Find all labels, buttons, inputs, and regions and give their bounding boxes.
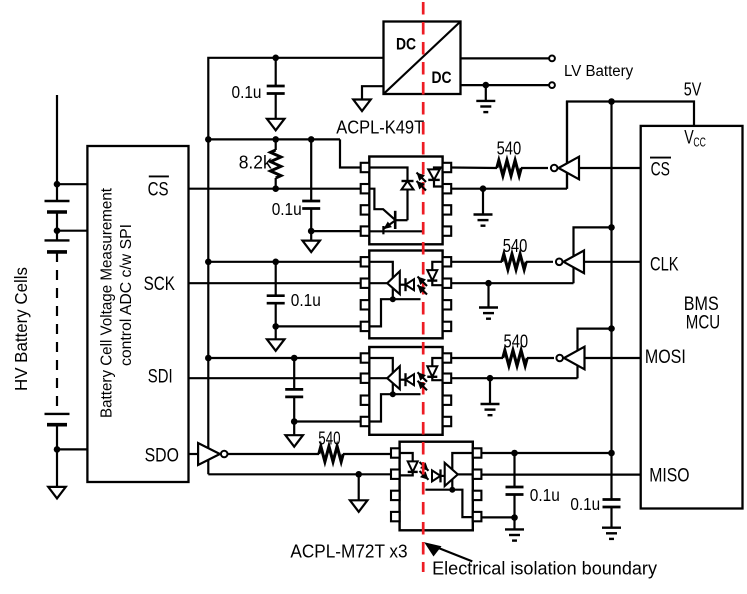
battery cell B3 <box>45 414 70 425</box>
wire <box>293 358 295 389</box>
node <box>485 280 492 287</box>
wire <box>451 377 577 379</box>
pin <box>361 163 370 172</box>
label R5 540 <box>318 427 340 448</box>
wire <box>56 212 58 240</box>
svg-text:control ADC c/w SPI: control ADC c/w SPI <box>118 224 135 366</box>
wire <box>482 189 484 214</box>
pin <box>443 300 452 309</box>
svg-text:0.1u: 0.1u <box>232 82 262 102</box>
pin <box>443 353 452 362</box>
wire <box>362 86 384 99</box>
svg-text:HV Battery Cells: HV Battery Cells <box>11 267 31 391</box>
ground (HV) arrow <box>353 100 371 112</box>
pin <box>473 470 482 479</box>
pin <box>361 353 370 362</box>
pin <box>443 374 452 383</box>
label C5 0.1u <box>530 485 560 505</box>
wire U2 gnd shield <box>369 230 422 232</box>
optocoupler U3 package <box>369 251 442 339</box>
light arrows U5 <box>420 462 429 480</box>
wire <box>485 85 487 100</box>
wire U2 vcc internal <box>369 168 407 182</box>
wire 5V HV rail lower <box>207 139 209 474</box>
inverter U7 (CS) <box>551 157 579 180</box>
annotation arrow to boundary <box>424 542 472 561</box>
battery cell B2 <box>45 240 70 252</box>
wire SCK line <box>189 282 361 284</box>
pin label SDI (ADC) <box>148 367 173 388</box>
wire <box>610 507 612 527</box>
label R1 8.2k <box>239 152 273 172</box>
wire <box>340 139 361 167</box>
ground (HV) arrow <box>285 435 303 447</box>
photodiode <box>406 278 415 291</box>
wire (dashed battery continuation) <box>56 252 58 414</box>
wire <box>276 325 361 327</box>
svg-text:ACPL-M72T x3: ACPL-M72T x3 <box>290 542 407 562</box>
wire buffer pwr <box>578 329 612 379</box>
ADC U1 Battery Cell Voltage Measurement box <box>87 146 188 482</box>
label ADC line2 <box>118 224 135 366</box>
wire 5V branch <box>208 357 360 359</box>
label LV Battery <box>564 63 633 80</box>
pin <box>391 470 400 479</box>
ground (HV) arrow <box>302 241 320 253</box>
resistor R4 540 <box>503 350 527 365</box>
ground (HV) arrow <box>267 119 285 131</box>
capacitor C2 0.1u <box>302 201 320 209</box>
label ACPL-K49T <box>336 118 424 138</box>
ground (LV) earth <box>602 528 621 539</box>
capacitor C6 0.1u <box>603 500 621 508</box>
svg-text:Electrical isolation boundary: Electrical isolation boundary <box>432 558 658 579</box>
pin <box>361 257 370 266</box>
wire vcc internal <box>369 358 393 394</box>
wire shield stub <box>393 393 421 395</box>
svg-text:540: 540 <box>504 331 529 352</box>
resistor R2 540 <box>497 160 521 175</box>
capacitor C1 0.1u <box>267 86 285 94</box>
label C6 0.1u <box>570 494 600 514</box>
ground (LV) earth <box>505 529 524 540</box>
pin label CLK (MCU) <box>650 255 679 276</box>
wire output <box>458 473 473 475</box>
node <box>355 471 362 478</box>
svg-text:SCK: SCK <box>144 274 176 295</box>
label BMS <box>684 294 719 315</box>
node <box>272 55 279 62</box>
svg-text:Battery Cell Voltage Measureme: Battery Cell Voltage Measurement <box>99 187 116 418</box>
resistor R3 540 <box>502 254 526 269</box>
node battery tap 2 <box>54 227 61 234</box>
wire <box>400 379 406 381</box>
wire <box>610 453 612 500</box>
amplifier (detector U5) <box>445 463 458 486</box>
wire 5V HV top <box>208 58 383 140</box>
node <box>308 136 315 143</box>
wire gnd internal <box>369 299 393 326</box>
node <box>511 450 518 457</box>
wire MOSI input <box>585 357 641 359</box>
wire 5V HV branch <box>208 138 340 140</box>
pin <box>443 322 452 331</box>
svg-text:SDI: SDI <box>148 367 173 388</box>
label C2 0.1u <box>272 199 302 219</box>
label 5V <box>684 79 702 100</box>
node <box>608 450 615 457</box>
pin <box>391 448 400 457</box>
inverter U9 (MOSI) <box>556 347 584 370</box>
label R2 540 <box>497 138 522 159</box>
svg-text:DC: DC <box>396 36 416 54</box>
wire <box>57 448 87 450</box>
wire <box>513 453 515 487</box>
pin <box>361 279 370 288</box>
node <box>291 355 298 362</box>
battery cell B1 <box>45 201 70 212</box>
pin <box>361 396 370 405</box>
pin <box>443 396 452 405</box>
wire <box>461 57 550 59</box>
wire <box>451 282 573 284</box>
svg-text:CC: CC <box>693 135 706 150</box>
wire <box>310 139 312 201</box>
node <box>449 487 455 493</box>
capacitor C5 0.1u <box>506 487 524 495</box>
svg-text:540: 540 <box>497 138 522 159</box>
pin <box>443 226 452 235</box>
transistor Q1 (U2 output) <box>369 189 395 235</box>
amplifier (detector) <box>387 366 400 389</box>
optocoupler U2 package <box>369 157 442 245</box>
pin label MISO (MCU) <box>649 465 689 487</box>
pin label CS (ADC) <box>148 176 169 200</box>
wire gnd internal <box>452 490 473 517</box>
node <box>291 418 298 425</box>
wire <box>275 262 277 296</box>
wire <box>293 397 295 422</box>
wire <box>481 452 611 454</box>
node <box>205 136 212 143</box>
pin <box>391 491 400 500</box>
resistor R1 8.2k <box>270 139 281 188</box>
wire gnd HV <box>208 473 391 475</box>
photodiode U5 <box>432 469 441 482</box>
label R3 540 <box>503 235 528 256</box>
svg-text:8.2k: 8.2k <box>239 152 273 172</box>
wire <box>57 230 87 232</box>
svg-text:ACPL-K49T: ACPL-K49T <box>336 118 424 138</box>
svg-text:0.1u: 0.1u <box>272 199 302 219</box>
pin <box>361 184 370 193</box>
label C3 0.1u <box>291 290 321 310</box>
photodiode <box>406 373 415 386</box>
wire CS line <box>189 188 361 190</box>
wire <box>461 84 550 86</box>
wire <box>275 58 277 86</box>
wire shield stub <box>425 489 452 491</box>
wire <box>481 516 514 518</box>
wire <box>311 230 361 232</box>
pin <box>361 300 370 309</box>
wire vcc internal <box>452 453 473 490</box>
node battery bottom tap <box>54 446 61 453</box>
wire <box>310 231 312 241</box>
pin <box>473 491 482 500</box>
svg-text:0.1u: 0.1u <box>570 494 600 514</box>
node <box>483 82 490 89</box>
pin <box>443 184 452 193</box>
inverter U8 (CLK) <box>556 251 584 274</box>
node <box>487 375 494 382</box>
svg-text:MISO: MISO <box>649 465 689 487</box>
resistor R5 540 <box>319 446 343 461</box>
optocoupler U5 package <box>400 442 473 531</box>
DC/DC converter PS1 box <box>384 22 461 95</box>
LED <box>427 262 442 285</box>
label DC (top) <box>396 36 416 54</box>
LED U5 <box>400 453 418 475</box>
node <box>608 98 615 105</box>
svg-text:MCU: MCU <box>686 313 720 334</box>
svg-text:MOSI: MOSI <box>645 347 686 368</box>
pin label SCK (ADC) <box>144 274 176 295</box>
node <box>272 185 279 192</box>
node <box>272 259 279 266</box>
wire <box>489 378 491 403</box>
wire <box>395 219 407 221</box>
node <box>480 185 487 192</box>
svg-text:DC: DC <box>431 69 451 87</box>
ground (HV) arrow <box>48 487 66 499</box>
svg-text:540: 540 <box>318 427 340 448</box>
pin <box>361 226 370 235</box>
wire <box>451 261 553 263</box>
wire SDO from ADC <box>189 453 199 455</box>
node <box>205 355 212 362</box>
svg-text:CS: CS <box>651 160 670 181</box>
pin label CS (MCU) <box>650 158 671 181</box>
wire output <box>369 377 387 379</box>
capacitor C3 0.1u <box>267 296 285 304</box>
wire <box>451 166 548 169</box>
wire 5V LV <box>567 102 694 189</box>
node <box>390 296 396 302</box>
terminal LV Battery + <box>549 56 555 62</box>
ground (HV) arrow <box>350 500 368 512</box>
wire <box>275 303 277 326</box>
wire output <box>369 282 387 284</box>
LED <box>427 358 442 380</box>
pin <box>473 512 482 521</box>
pin label MOSI (MCU) <box>645 347 686 368</box>
BMS MCU U6 box <box>641 126 743 509</box>
capacitor C4 0.1u <box>285 389 303 397</box>
terminal LV Battery - <box>549 82 555 88</box>
wire 5V branch <box>208 261 360 263</box>
label MCU <box>686 313 720 334</box>
photodiode U2 <box>402 181 414 190</box>
light arrows U4 <box>418 372 428 390</box>
pin <box>443 279 452 288</box>
wire buffer pwr/gnd <box>566 101 568 189</box>
DC/DC diagonal <box>384 22 461 95</box>
wire <box>513 518 515 529</box>
wire vcc internal <box>369 262 393 299</box>
node <box>272 323 279 330</box>
wire SDI line <box>189 377 361 379</box>
pin label SDO (ADC) <box>145 445 179 466</box>
electrical isolation boundary (red dashed) <box>422 2 425 572</box>
inverter U10 (SDO) <box>198 443 227 465</box>
svg-text:0.1u: 0.1u <box>530 485 560 505</box>
pin <box>443 205 452 214</box>
ground (LV) earth <box>479 308 498 319</box>
amplifier (detector) <box>387 271 400 294</box>
node <box>205 259 212 266</box>
label ADC line1 <box>99 187 116 418</box>
pin <box>473 448 482 457</box>
label HV Battery Cells <box>11 267 31 391</box>
pin <box>443 417 452 426</box>
pin <box>443 257 452 266</box>
label DC (bottom) <box>431 69 451 87</box>
wire <box>275 94 277 119</box>
pin <box>361 374 370 383</box>
wire <box>275 326 277 339</box>
label R4 540 <box>504 331 529 352</box>
wire <box>441 475 445 477</box>
pin <box>391 512 400 521</box>
wire <box>294 420 361 422</box>
svg-text:SDO: SDO <box>145 445 179 466</box>
LED U2 <box>428 168 442 189</box>
pin <box>361 205 370 214</box>
pin <box>361 322 370 331</box>
wire <box>451 357 554 359</box>
wire <box>293 422 295 436</box>
wire gnd internal <box>369 394 393 421</box>
optocoupler U4 package <box>369 347 442 435</box>
pin <box>361 417 370 426</box>
wire CLK input <box>584 261 641 263</box>
wire <box>451 188 567 190</box>
node <box>390 391 396 397</box>
svg-text:CS: CS <box>148 180 169 201</box>
wire shield stub <box>393 298 421 300</box>
node <box>272 136 279 143</box>
svg-text:540: 540 <box>503 235 528 256</box>
svg-text:5V: 5V <box>684 79 702 100</box>
wire <box>400 284 406 286</box>
node battery top tap <box>54 181 61 188</box>
wire <box>513 495 515 518</box>
node <box>608 325 615 332</box>
label ACPL-M72T x3 <box>290 542 407 562</box>
node <box>308 228 315 235</box>
wire buffer pwr <box>574 227 612 283</box>
ground (LV) earth <box>481 404 500 415</box>
wire CS input <box>579 167 641 169</box>
svg-text:0.1u: 0.1u <box>291 290 321 310</box>
pin label VCC (MCU) <box>684 128 706 150</box>
ground (HV) arrow <box>267 339 285 351</box>
wire <box>227 453 392 455</box>
ground (LV) earth <box>474 215 493 226</box>
wire MISO line <box>481 474 640 476</box>
svg-text:CLK: CLK <box>650 255 679 276</box>
wire <box>406 190 408 221</box>
ground (LV) earth <box>476 101 495 112</box>
node <box>511 514 518 521</box>
label C1 0.1u <box>232 82 262 102</box>
wire <box>358 474 360 500</box>
label Electrical isolation boundary <box>432 558 658 579</box>
node <box>608 224 615 231</box>
light arrows U2 <box>417 173 427 191</box>
light arrows U3 <box>418 277 428 295</box>
wire <box>56 425 58 487</box>
wire 5V LV rail <box>610 102 612 454</box>
wire <box>56 95 58 201</box>
wire <box>57 183 87 185</box>
wire <box>487 283 489 307</box>
svg-text:LV Battery: LV Battery <box>564 63 633 80</box>
pin <box>443 163 452 172</box>
wire <box>310 209 312 232</box>
